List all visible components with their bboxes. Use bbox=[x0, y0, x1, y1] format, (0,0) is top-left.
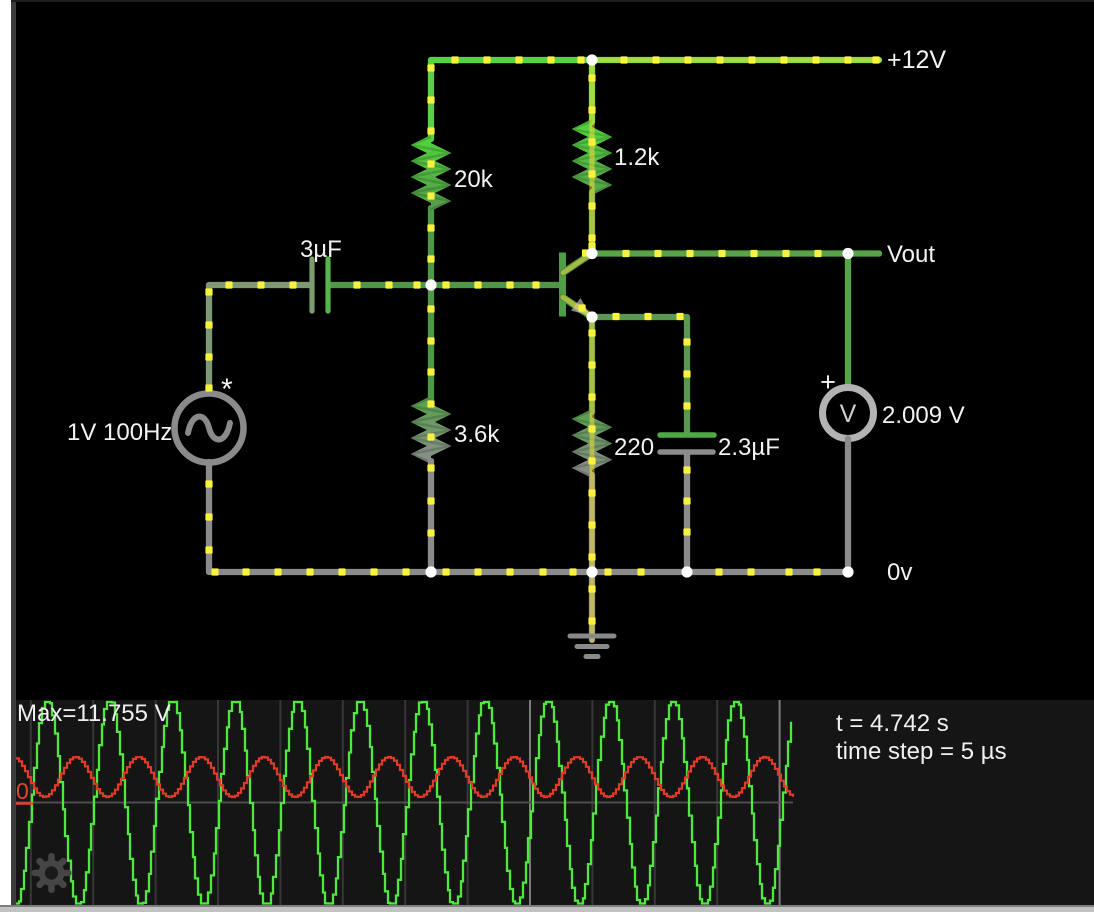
capacitor C2 2.3uF bottom plate bbox=[660, 449, 713, 455]
bottom scrollbar bar bbox=[0, 905, 1094, 912]
svg-text:t = 4.742 s: t = 4.742 s bbox=[836, 710, 949, 737]
current trail: 12V rail to collector bbox=[592, 60, 879, 254]
resistor R4 220 bottom lead to ground bbox=[589, 475, 595, 640]
wire: top rail left segment (12V) with 20k top lead bbox=[431, 60, 592, 139]
svg-text:2.3µF: 2.3µF bbox=[718, 434, 780, 461]
scope panel background bbox=[0, 700, 1094, 906]
svg-text:2.009 V: 2.009 V bbox=[882, 402, 965, 429]
wire: base node from divider junction to transistor bbox=[329, 282, 559, 288]
svg-text:0: 0 bbox=[16, 778, 29, 804]
scope trace Vout (green) bbox=[16, 702, 791, 904]
capacitor C2 2.3uF bottom lead bbox=[684, 454, 690, 572]
resistor R4 220 top lead bbox=[589, 317, 595, 412]
svg-text:Vout: Vout bbox=[887, 241, 935, 268]
current trail: collector diagonal bbox=[563, 254, 591, 273]
capacitor C1 3uF left plate bbox=[309, 259, 314, 311]
scope zero axis line bbox=[16, 802, 793, 804]
transistor Q1 collector lead bbox=[563, 254, 592, 273]
junction node dots bbox=[425, 54, 853, 577]
svg-text:Max=11.755 V: Max=11.755 V bbox=[17, 700, 171, 727]
svg-text:time step = 5 µs: time step = 5 µs bbox=[836, 738, 1007, 765]
svg-text:1V 100Hz: 1V 100Hz bbox=[67, 419, 172, 446]
current dots (animated yellow squares) bbox=[205, 56, 879, 624]
resistor R3 3.6k body bbox=[411, 396, 452, 464]
svg-text:*: * bbox=[221, 373, 233, 406]
voltmeter bottom lead (gray) bbox=[845, 439, 851, 573]
wire: emitter node to bypass capacitor bbox=[592, 317, 687, 433]
scope zero label (red) bbox=[13, 778, 33, 804]
svg-text:3µF: 3µF bbox=[300, 236, 342, 263]
resistor R3 3.6k top lead bbox=[428, 285, 434, 399]
resistor R1 20k body bbox=[411, 135, 452, 211]
svg-text:20k: 20k bbox=[454, 166, 494, 193]
svg-text:0v: 0v bbox=[887, 559, 912, 586]
resistor R3 3.6k bottom lead bbox=[428, 461, 434, 572]
transistor Q1 emitter arrow bbox=[571, 298, 591, 316]
resistor R2 1.2k body bbox=[572, 119, 613, 195]
ground symbol bbox=[570, 636, 614, 657]
resistor R4 220 body bbox=[572, 409, 613, 478]
resistor R1 20k bottom lead bbox=[428, 208, 434, 285]
svg-text:V: V bbox=[840, 400, 857, 428]
resistor R2 1.2k top lead bbox=[589, 60, 595, 122]
capacitor C1 3uF right plate bbox=[325, 259, 330, 311]
gear settings icon bbox=[32, 853, 72, 893]
svg-text:220: 220 bbox=[614, 434, 654, 461]
wire: ground rail (0v) with AC source bottom lead bbox=[209, 462, 848, 572]
resistor R2 1.2k bottom lead bbox=[589, 192, 595, 254]
svg-text:+12V: +12V bbox=[887, 46, 946, 74]
wire: +12V rail right segment bbox=[592, 57, 879, 63]
scope trace input (red) bbox=[16, 757, 793, 797]
transistor Q1 base bar bbox=[559, 253, 566, 317]
svg-text:3.6k: 3.6k bbox=[454, 421, 500, 448]
voltmeter M1 circle bbox=[823, 388, 874, 439]
voltmeter top lead (green, from Vout) bbox=[845, 254, 851, 389]
transistor Q1 emitter lead bbox=[563, 297, 592, 317]
AC source sine symbol bbox=[188, 417, 230, 440]
capacitor C2 2.3uF top plate bbox=[660, 432, 714, 438]
wire: collector to Vout label bbox=[592, 250, 879, 256]
window top border line bbox=[11, 0, 1094, 2]
window left border line bbox=[11, 0, 16, 906]
capacitor C1 3uF left lead and AC source top lead bbox=[209, 285, 311, 393]
AC voltage source V1 circle bbox=[175, 394, 244, 463]
svg-text:1.2k: 1.2k bbox=[614, 144, 660, 171]
current trail: emitter diagonal to ground bbox=[563, 297, 592, 640]
scope grid vertical lines bbox=[31, 700, 780, 906]
svg-text:+: + bbox=[820, 367, 836, 397]
window left margin bbox=[0, 0, 11, 906]
